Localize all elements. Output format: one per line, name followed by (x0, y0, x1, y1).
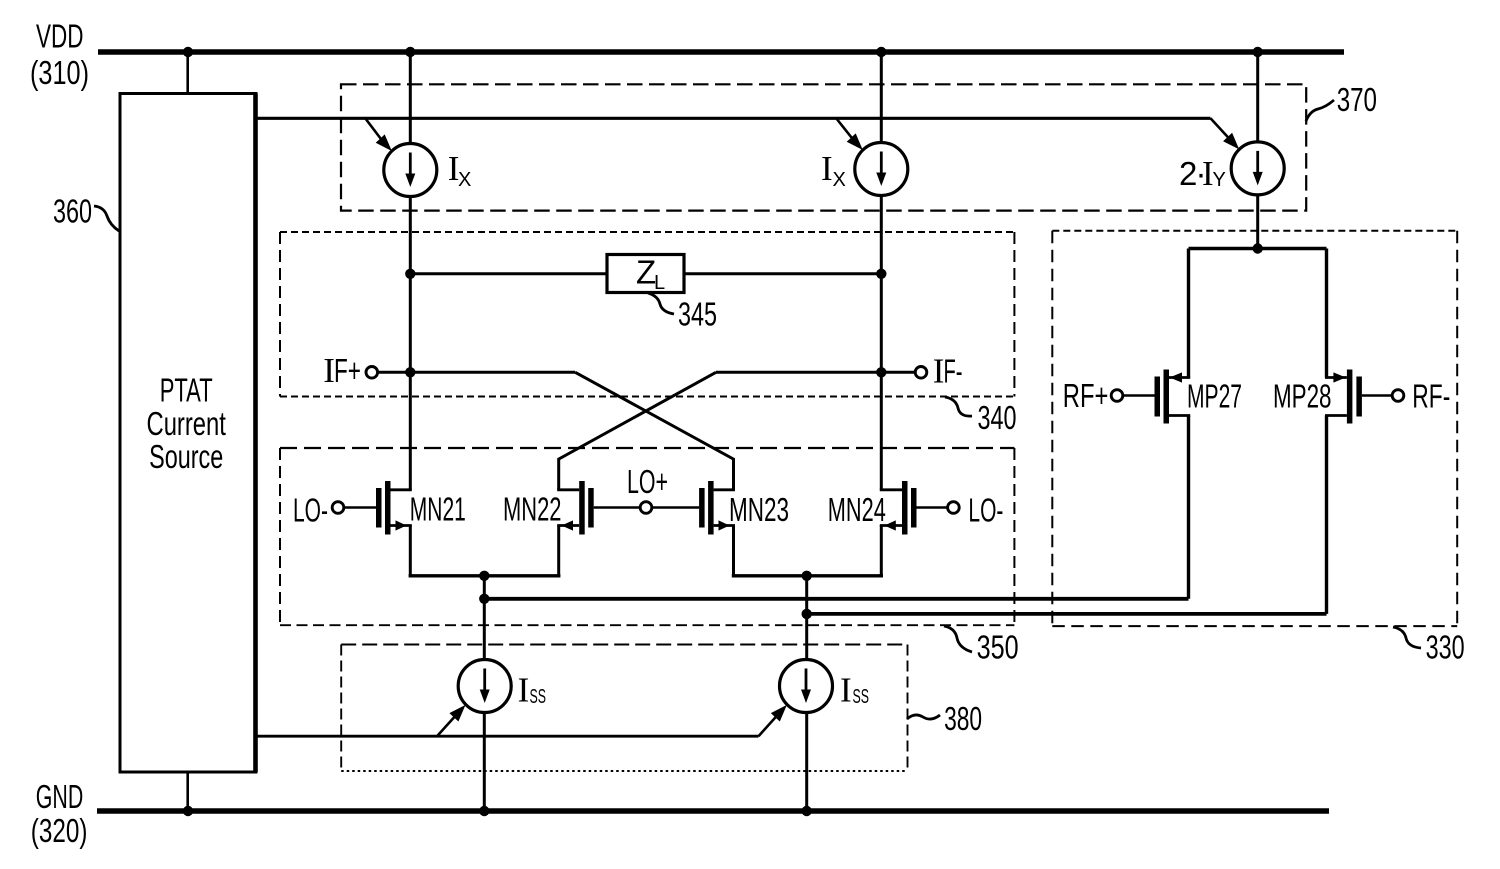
control arrow into 2Iy (1211, 118, 1230, 139)
crossover diagonal IF- to MN22 (559, 372, 716, 490)
wire B to MP28 drain (807, 612, 1327, 616)
control arrow into Ix left (366, 119, 383, 141)
transistor MN24 (880, 481, 947, 576)
dashed box 340 (280, 232, 1014, 397)
source wire MN23/MN24 pair (732, 574, 883, 577)
svg-text:PTAT: PTAT (160, 372, 213, 409)
crossover diagonal IF+ to MN23 (575, 372, 733, 490)
current source Iss right (780, 660, 833, 713)
transistor MP27 (1124, 370, 1190, 424)
wire A to MP27 drain (484, 597, 1188, 601)
control wire PTAT to Iss sources 380 (256, 735, 759, 738)
top wire MP pair (1189, 247, 1327, 250)
svg-text:SS: SS (853, 686, 870, 708)
dashed box 380 (341, 645, 907, 772)
stub to wire A (483, 576, 486, 660)
svg-text:Source: Source (149, 438, 223, 475)
svg-text:340: 340 (978, 399, 1017, 436)
svg-text:350: 350 (977, 629, 1019, 666)
svg-text:Current: Current (147, 405, 226, 442)
svg-text:I: I (821, 149, 833, 188)
current source Ix right (855, 143, 908, 196)
svg-text:I: I (518, 671, 530, 710)
wire VDD to PTAT top (186, 52, 189, 94)
svg-text:345: 345 (678, 296, 717, 333)
GND rail (320) (97, 808, 1329, 814)
svg-text:360: 360 (53, 193, 92, 230)
load ZL 345 (410, 272, 607, 275)
dashed box 330 (1052, 231, 1457, 626)
source wire MN21/MN22 pair (409, 574, 561, 577)
control arrow into Ix right (837, 119, 854, 140)
svg-text:I: I (840, 671, 852, 710)
svg-text:LO-: LO- (293, 492, 328, 529)
svg-text:GND: GND (36, 778, 84, 815)
control arrow into Iss right (759, 715, 779, 737)
IF- wire (716, 371, 914, 374)
current source Ix left (384, 144, 437, 197)
svg-text:MN24: MN24 (828, 491, 886, 528)
IF+ wire (379, 371, 576, 374)
svg-text:VDD: VDD (36, 18, 84, 55)
svg-text:F+: F+ (334, 352, 361, 389)
leader 330 (1393, 627, 1421, 648)
transistor MN23 (653, 481, 735, 576)
leader 345 (648, 293, 674, 314)
control wire PTAT to current sources 370 (256, 117, 1211, 120)
control arrow into Iss left (437, 715, 457, 737)
svg-text:Y: Y (1213, 169, 1226, 191)
MP27 drain vertical (1187, 416, 1190, 599)
PTAT current source block 360 (120, 94, 256, 773)
svg-text:SS: SS (530, 686, 547, 708)
dashed box 350 (280, 448, 1014, 625)
LO- right terminal (948, 502, 960, 514)
leader 370 (1306, 100, 1334, 121)
svg-text:370: 370 (1337, 81, 1377, 118)
leader 360 (94, 206, 119, 231)
main vertical right (x=881) (880, 52, 883, 143)
svg-text:MP28: MP28 (1273, 378, 1332, 415)
svg-text:(310): (310) (30, 54, 89, 91)
svg-text:MN21: MN21 (410, 491, 466, 528)
svg-text:MN23: MN23 (729, 491, 789, 528)
RF- terminal (1392, 390, 1404, 402)
svg-text:X: X (833, 169, 846, 191)
svg-text:(320): (320) (31, 812, 88, 849)
vertical Iss left to GND (483, 713, 486, 812)
main vertical left (x=410) (409, 52, 412, 144)
MP27 source vertical (1187, 249, 1190, 378)
dashed box 370 (341, 84, 1306, 210)
svg-text:RF-: RF- (1412, 378, 1450, 415)
stub to wire B (805, 576, 808, 660)
VDD rail (310) (98, 49, 1344, 55)
wire PTAT bottom to GND (186, 772, 189, 811)
leader 380 (907, 715, 940, 719)
svg-text:380: 380 (944, 700, 982, 737)
svg-text:LO+: LO+ (627, 463, 668, 500)
vertical 2Iy to MP pair (1256, 52, 1259, 142)
svg-text:330: 330 (1426, 629, 1465, 666)
leader 350 (944, 626, 972, 652)
svg-text:MP27: MP27 (1187, 378, 1242, 415)
svg-text:MN22: MN22 (503, 491, 562, 528)
leader 340 (945, 397, 972, 416)
MP28 source vertical (1325, 249, 1328, 378)
current source 2Iy (1231, 142, 1284, 195)
MP28 drain vertical (1325, 416, 1328, 614)
svg-text:F-: F- (944, 353, 963, 390)
transistor MN22 (557, 481, 639, 576)
current source Iss left (458, 660, 511, 713)
vertical Iss right to GND (805, 713, 808, 812)
svg-text:RF+: RF+ (1063, 377, 1109, 414)
svg-text:LO-: LO- (968, 492, 1003, 529)
transistor MN21 (345, 481, 412, 576)
svg-text:L: L (654, 272, 665, 294)
svg-text:X: X (458, 169, 471, 191)
transistor MP28 (1325, 370, 1391, 424)
